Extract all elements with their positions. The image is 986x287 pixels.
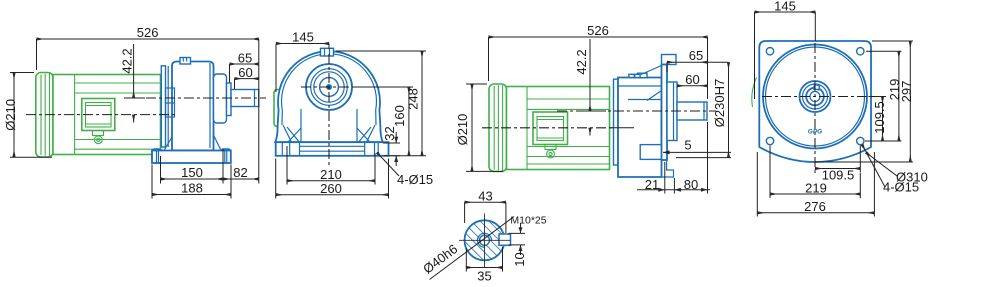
motor fins bbox=[527, 99, 610, 164]
output boss circles bbox=[306, 64, 352, 110]
svg-text:32: 32 bbox=[382, 126, 397, 140]
spigot O230 bbox=[667, 82, 677, 141]
foot slots bbox=[157, 149, 227, 163]
gear housing bbox=[618, 78, 662, 178]
dim 109.5 vertical bbox=[882, 97, 884, 142]
base plate bbox=[152, 151, 231, 164]
housing interior lines bbox=[618, 86, 662, 100]
dim 526 bbox=[489, 36, 708, 38]
svg-text:60: 60 bbox=[238, 65, 252, 80]
crosshair bbox=[459, 239, 511, 241]
output shaft bbox=[677, 102, 707, 120]
svg-text:145: 145 bbox=[292, 30, 314, 45]
svg-text:65: 65 bbox=[238, 51, 252, 66]
svg-text:M10*25: M10*25 bbox=[510, 215, 546, 227]
dim 65 bbox=[230, 63, 259, 65]
SHAFT DETAIL bbox=[420, 189, 547, 284]
svg-text:60: 60 bbox=[685, 72, 699, 87]
svg-text:188: 188 bbox=[181, 181, 203, 196]
dim 60 bbox=[235, 78, 259, 80]
label O310 bbox=[866, 153, 897, 177]
svg-text:210: 210 bbox=[320, 167, 342, 182]
svg-text:80: 80 bbox=[684, 177, 698, 192]
motor fan cover bbox=[36, 73, 53, 158]
dim 82 bbox=[223, 178, 259, 180]
flange gusset ribs bbox=[641, 66, 663, 101]
motor body bbox=[53, 75, 161, 155]
dims 21 and 80 bbox=[637, 189, 710, 191]
dim 42.2 bbox=[582, 110, 606, 112]
center bore M10 tap bbox=[480, 235, 490, 245]
base plate bbox=[276, 142, 389, 156]
svg-text:42.2: 42.2 bbox=[120, 48, 135, 73]
VIEW3 bbox=[455, 23, 731, 194]
output boss circles bbox=[800, 81, 831, 112]
fan cover ribs bbox=[41, 74, 50, 157]
svg-text:65: 65 bbox=[689, 48, 703, 63]
fin section seam bbox=[74, 75, 76, 155]
dim 145 bbox=[755, 11, 816, 13]
eye bolt bbox=[180, 58, 191, 65]
dim 276 bbox=[757, 212, 874, 214]
cable gland bbox=[93, 131, 104, 136]
bearing boss bbox=[214, 74, 227, 123]
bottom box bbox=[640, 145, 663, 160]
svg-text:145: 145 bbox=[774, 0, 796, 13]
svg-text:Ø210: Ø210 bbox=[455, 114, 470, 146]
dim O230H7 bbox=[728, 62, 730, 157]
svg-text:248: 248 bbox=[406, 88, 421, 110]
vent plugs bbox=[638, 73, 648, 78]
svg-text:526: 526 bbox=[587, 23, 609, 38]
input boss notch bbox=[166, 88, 175, 117]
gearbox dome housing bbox=[275, 51, 383, 142]
svg-text:526: 526 bbox=[137, 25, 159, 40]
dim 210 bbox=[287, 180, 375, 182]
output axis centerline bbox=[557, 110, 716, 112]
waist walls bbox=[301, 109, 357, 142]
svg-text:109.5: 109.5 bbox=[872, 101, 887, 134]
keyway slot bbox=[499, 234, 511, 245]
svg-text:4-Ø15: 4-Ø15 bbox=[397, 172, 433, 187]
dim 5 bbox=[663, 151, 731, 153]
VIEW2 bbox=[274, 30, 433, 199]
dim 248 bbox=[421, 51, 423, 156]
terminal box bbox=[82, 99, 115, 131]
dim 160 bbox=[408, 87, 410, 156]
dim 145 bbox=[276, 43, 329, 45]
flange top block bbox=[662, 55, 677, 65]
bearing cap bbox=[227, 83, 232, 116]
dim 43 bbox=[465, 201, 506, 203]
dim 219 vertical bbox=[898, 51, 900, 141]
dim 219 horizontal bbox=[770, 193, 860, 195]
adapter ring bbox=[614, 79, 619, 165]
feet lines bbox=[282, 142, 378, 156]
crosshair centerlines bbox=[301, 86, 357, 88]
motor axis centerline bbox=[482, 127, 612, 129]
flange bottom steps bbox=[662, 160, 674, 177]
crosshair centerlines bbox=[762, 96, 868, 98]
flange plate bbox=[662, 65, 668, 161]
motor flange behind (green) bbox=[274, 90, 284, 127]
dim O210 bbox=[13, 73, 15, 158]
VIEW1 bbox=[3, 25, 266, 199]
keyway bbox=[814, 85, 820, 90]
svg-text:82: 82 bbox=[233, 165, 247, 180]
dim 10 bbox=[520, 224, 522, 234]
leg gussets bbox=[283, 125, 375, 142]
dim 65 bbox=[667, 61, 708, 63]
output shaft bbox=[231, 90, 259, 107]
svg-text:150: 150 bbox=[181, 165, 203, 180]
svg-text:21: 21 bbox=[645, 177, 659, 192]
dome inner wall bbox=[282, 54, 377, 125]
terminal box bbox=[533, 112, 568, 145]
dim 32 bbox=[395, 132, 397, 143]
motor fan cover bbox=[489, 84, 507, 172]
flange plate outline bbox=[759, 41, 871, 162]
dim 260 bbox=[276, 194, 389, 196]
dim 297 vertical bbox=[909, 41, 911, 162]
motor body bbox=[507, 87, 610, 170]
label 4-O15 bbox=[377, 153, 399, 177]
svg-text:4-Ø15: 4-Ø15 bbox=[883, 180, 919, 195]
gear output axis centerline bbox=[146, 97, 266, 99]
svg-text:Ø210: Ø210 bbox=[3, 99, 18, 131]
dim 35 bbox=[466, 267, 502, 269]
right extension lines bbox=[872, 40, 913, 42]
foot tabs bbox=[152, 149, 162, 163]
motor behind (green arc) bbox=[752, 78, 757, 108]
gearbox bell housing bbox=[172, 62, 214, 151]
dim 150 bbox=[161, 178, 224, 180]
shaft section hatched circle bbox=[465, 220, 505, 260]
svg-text:42.2: 42.2 bbox=[574, 49, 589, 74]
dim 109.5 horizontal bbox=[815, 168, 860, 170]
motor axis centerline bbox=[26, 114, 177, 116]
svg-text:276: 276 bbox=[804, 199, 826, 214]
svg-text:43: 43 bbox=[478, 189, 492, 204]
svg-text:260: 260 bbox=[320, 181, 342, 196]
housing circle bbox=[763, 45, 867, 149]
top plug bbox=[321, 48, 334, 56]
gearbox adapter flange bbox=[161, 66, 165, 147]
svg-text:Ø230H7: Ø230H7 bbox=[712, 79, 727, 127]
svg-text:5: 5 bbox=[684, 138, 691, 153]
dim 188 bbox=[152, 194, 231, 196]
dim O210 bbox=[471, 84, 473, 172]
leader line bbox=[430, 217, 515, 280]
svg-text:219: 219 bbox=[805, 180, 827, 195]
svg-text:35: 35 bbox=[477, 269, 491, 284]
label 4-O15 bbox=[862, 145, 885, 188]
svg-text:297: 297 bbox=[899, 81, 914, 103]
dim 42.2 bbox=[124, 97, 145, 99]
bolt holes bbox=[766, 48, 773, 55]
svg-text:10: 10 bbox=[512, 252, 527, 266]
motor fins bbox=[75, 83, 161, 149]
VIEW4 bbox=[752, 0, 928, 216]
dim 526 bbox=[37, 38, 259, 40]
cable gland bbox=[545, 145, 556, 150]
dim 60 bbox=[677, 85, 708, 87]
fin section seam bbox=[526, 87, 528, 170]
bell to base taper bbox=[164, 135, 221, 150]
